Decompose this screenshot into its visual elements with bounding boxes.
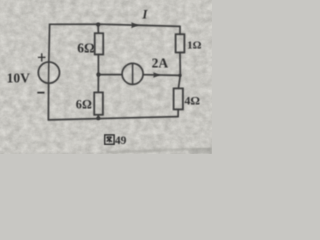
resistor 1ohm body: [176, 34, 185, 52]
svg-text:4Ω: 4Ω: [184, 93, 200, 107]
arrowhead current 2A: [153, 72, 160, 78]
wire middle branch top lead: [97, 24, 99, 33]
svg-text:10V: 10V: [7, 71, 31, 86]
wire from middle node to current source: [98, 74, 122, 76]
paper background: [0, 0, 212, 154]
wire bottom (node d to node c): [48, 117, 178, 120]
wire left branch upper: [48, 24, 51, 62]
svg-text:6Ω: 6Ω: [76, 97, 92, 111]
wire from current source to right branch: [143, 74, 180, 77]
resistor 6ohm upper body: [95, 33, 104, 54]
voltage source US 10V: [38, 62, 59, 83]
svg-text:2A: 2A: [152, 55, 169, 70]
current source IS 2A: [122, 63, 143, 84]
svg-text:49: 49: [115, 135, 127, 147]
junction node bottom: [96, 116, 100, 120]
wire left branch lower: [47, 83, 49, 120]
junction node middle: [96, 73, 100, 77]
scan shadow bottom edge: [0, 148, 212, 155]
junction node a (top middle): [96, 23, 100, 27]
wire right branch top: [179, 26, 181, 34]
polarity minus of US: [37, 92, 44, 94]
resistor 4ohm body: [174, 88, 183, 109]
junction node right: [179, 74, 182, 77]
wire middle branch lower lead: [97, 75, 99, 93]
wire middle branch between resistors: [97, 55, 99, 75]
resistor 6ohm lower body: [94, 92, 103, 114]
svg-text:1Ω: 1Ω: [187, 39, 202, 51]
arrowhead current I on top wire: [131, 22, 139, 28]
wire top (node a to node b): [50, 24, 180, 26]
wire right branch bottom: [177, 109, 179, 116]
wire right branch middle: [178, 53, 180, 89]
svg-text:6Ω: 6Ω: [77, 41, 95, 56]
wire middle branch to bottom node: [97, 115, 99, 119]
polarity plus of US: [38, 53, 46, 61]
svg-text:I: I: [141, 7, 148, 22]
caption figure number: glyph tu (drawn): [105, 135, 114, 144]
